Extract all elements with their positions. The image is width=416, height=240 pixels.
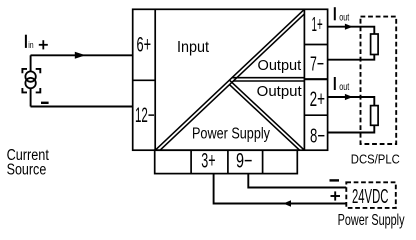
label Iin xyxy=(26,35,34,50)
svg-text:7−: 7− xyxy=(310,52,324,75)
svg-text:Output: Output xyxy=(257,84,302,100)
divider between terminal 7 and 2 xyxy=(304,78,327,80)
wire: terminal 2+ to load resistor R2 xyxy=(328,97,375,106)
svg-text:24VDC: 24VDC xyxy=(352,186,388,208)
wire: terminal 1+ to load resistor R1 xyxy=(328,27,375,34)
svg-text:Source: Source xyxy=(7,162,47,179)
DCS/PLC dashed enclosure xyxy=(361,17,397,144)
svg-text:8−: 8− xyxy=(310,125,325,148)
svg-text:Output: Output xyxy=(258,58,302,74)
svg-text:DCS/PLC: DCS/PLC xyxy=(351,151,400,166)
label Iout 1 xyxy=(335,7,350,23)
resistor R2 load xyxy=(371,106,379,126)
isolation barrier diagonal output2/power xyxy=(229,80,304,153)
24VDC power supply dashed box xyxy=(346,182,396,208)
plus sign at Iin xyxy=(39,40,48,49)
arrowhead on input wire xyxy=(75,52,86,59)
svg-text:out: out xyxy=(339,12,349,23)
svg-text:2+: 2+ xyxy=(310,88,325,111)
wire: resistor R2 to terminal 8- xyxy=(328,125,375,132)
dashed corner brackets around current source xyxy=(22,69,40,93)
divider between terminal 2 and 8 xyxy=(304,114,327,116)
wire: current source to terminal 12- xyxy=(31,106,133,108)
divider between terminal 6 and 12 xyxy=(133,79,156,81)
arrowhead on output 2 wire xyxy=(345,94,353,100)
svg-text:9−: 9− xyxy=(236,149,252,172)
divider between terminal 1 and 7 xyxy=(304,44,327,46)
wire: resistor R1 to terminal 7- xyxy=(328,55,375,60)
isolator module outer box xyxy=(133,9,328,150)
right terminal column divider xyxy=(303,9,305,150)
svg-text:1+: 1+ xyxy=(312,13,323,36)
label Iout 2 xyxy=(335,77,350,93)
Current Source label xyxy=(7,147,50,179)
isolation barrier diagonal input/output xyxy=(155,9,307,152)
left terminal column divider xyxy=(154,9,156,150)
svg-text:Input: Input xyxy=(177,39,210,56)
wire: terminal 9- to power supply minus xyxy=(248,174,346,188)
plus sign at power supply xyxy=(331,191,341,200)
svg-text:12−: 12− xyxy=(135,104,155,127)
arrowhead on output 1 wire xyxy=(345,24,353,30)
svg-text:in: in xyxy=(28,40,33,50)
isolation barrier horizontal output1/output2 xyxy=(232,78,305,81)
svg-text:Power Supply: Power Supply xyxy=(192,125,270,142)
current source CS1 xyxy=(25,55,35,106)
resistor R1 load xyxy=(371,34,379,55)
svg-text:6+: 6+ xyxy=(137,34,152,57)
svg-text:out: out xyxy=(339,82,349,93)
svg-text:3+: 3+ xyxy=(201,149,215,172)
minus sign at current source xyxy=(41,102,49,104)
svg-text:Power Supply: Power Supply xyxy=(338,212,405,229)
bottom terminal block xyxy=(155,150,298,173)
arrowhead on power plus wire xyxy=(283,200,291,207)
wire: current source to terminal 6+ xyxy=(31,54,133,56)
wire: terminal 3+ to power supply plus xyxy=(214,174,347,204)
minus sign at power supply xyxy=(330,179,340,181)
